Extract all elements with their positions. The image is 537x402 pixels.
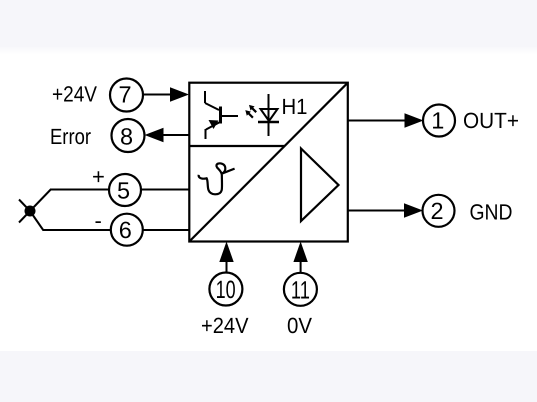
svg-text:7: 7: [118, 81, 131, 107]
svg-text:5: 5: [117, 177, 130, 203]
svg-text:6: 6: [119, 217, 132, 243]
svg-text:1: 1: [431, 107, 444, 133]
svg-text:0V: 0V: [287, 313, 312, 338]
svg-text:Error: Error: [50, 124, 91, 149]
svg-text:-: -: [95, 208, 102, 233]
svg-text:GND: GND: [470, 200, 513, 225]
svg-text:2: 2: [430, 198, 443, 224]
svg-text:OUT+: OUT+: [463, 108, 519, 133]
svg-text:+: +: [92, 164, 105, 189]
svg-text:11: 11: [291, 276, 310, 304]
svg-text:8: 8: [120, 123, 133, 149]
svg-text:+24V: +24V: [52, 82, 97, 107]
svg-text:10: 10: [216, 276, 236, 304]
svg-text:H1: H1: [282, 94, 308, 119]
svg-text:+24V: +24V: [201, 313, 249, 338]
